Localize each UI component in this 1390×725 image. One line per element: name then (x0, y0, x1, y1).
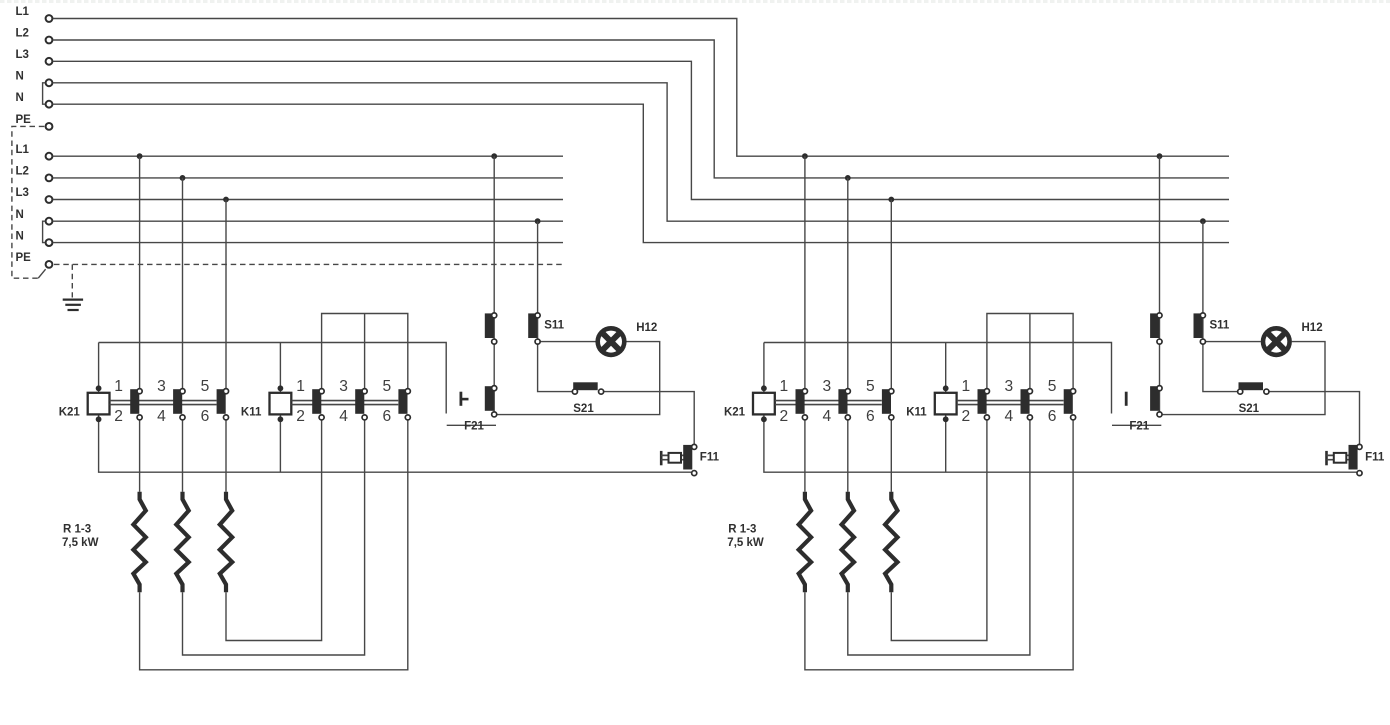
svg-text:1: 1 (780, 378, 789, 395)
mechanical linkage K11 contacts (left circuit) (291, 400, 398, 402)
contact K21 5-6 (right circuit) (882, 389, 891, 414)
wire left circuit star-point bridge over K11 (322, 314, 408, 392)
svg-text:7,5 kW: 7,5 kW (62, 537, 99, 549)
wire left circuit resistor R3 bottom loop to K11 contact 2 (226, 417, 322, 640)
svg-text:H12: H12 (1302, 322, 1323, 334)
wire left circuit K21 coil bottom to common return (99, 414, 694, 472)
svg-text:5: 5 (201, 378, 210, 395)
label F21 with reference line (left circuit) (447, 424, 496, 426)
overload relay F11 (right circuit) (1325, 451, 1328, 465)
pushbutton S21 (left circuit) (573, 382, 598, 390)
svg-text:4: 4 (157, 408, 166, 425)
svg-text:2: 2 (296, 408, 305, 425)
contact K11 1-2 (left circuit) (312, 389, 321, 414)
terminal L1 (distribution row 1) (46, 153, 53, 160)
contact K11 5-6 (right circuit) (1064, 389, 1073, 414)
wire right circuit star bridge middle drop to K11 contact 3 (1029, 314, 1031, 392)
mechanical linkage K21 contacts (right circuit) (775, 400, 882, 402)
svg-text:F11: F11 (1365, 452, 1385, 464)
auxiliary contact on L1 control drop (right circuit) (1150, 313, 1159, 338)
svg-text:2: 2 (780, 408, 789, 425)
svg-text:1: 1 (296, 378, 305, 395)
svg-text:S21: S21 (1239, 403, 1260, 415)
wire PE link diagonal to lower PE terminal (38, 269, 45, 278)
svg-text:6: 6 (1048, 408, 1057, 425)
terminal PE (incoming supply row 6) (46, 123, 53, 130)
terminal N (incoming supply row 5) (46, 101, 53, 108)
wire L3 upper bus (bends down to right-hand bus) (53, 61, 1229, 199)
svg-text:N: N (16, 209, 24, 221)
node right circuit L1 control tap junction (1157, 153, 1163, 159)
node right circuit L3 tap junction (888, 197, 894, 203)
resistor bank R 1-3 (left circuit) (133, 492, 145, 592)
wire left circuit K21 contact 2 down to resistor R1 (139, 417, 141, 491)
wire left circuit L1 drop through F21 contacts (493, 156, 495, 414)
svg-text:3: 3 (822, 378, 831, 395)
svg-text:F21: F21 (1129, 421, 1149, 433)
terminal N (distribution row 5) (46, 239, 53, 246)
overload relay F11 (left circuit) (660, 451, 663, 465)
svg-text:L3: L3 (16, 49, 29, 61)
overload contact F21 (right circuit) (1150, 386, 1159, 411)
terminal N (incoming supply row 4) (46, 79, 53, 86)
wire right circuit K11 coil bottom drop (945, 414, 947, 472)
svg-text:L2: L2 (16, 166, 29, 178)
resistor bank R 1-3 (right circuit) (799, 492, 811, 592)
wire left circuit S11 to lamp H12 (538, 341, 596, 343)
wire left circuit K21 contact 6 down to resistor R3 (225, 417, 227, 491)
wire left circuit N drop through S11 to S21 (538, 221, 574, 391)
svg-text:5: 5 (1048, 378, 1057, 395)
wire N lower-left bus (53, 220, 563, 222)
link between lower N terminals (43, 221, 46, 242)
wire right circuit K21 coil bottom to common return (764, 414, 1359, 472)
wire N upper bus (bends down to right-hand bus) (53, 104, 1229, 242)
wire right circuit K11 coil top (945, 343, 947, 393)
wire right circuit resistor R3 bottom loop to K11 contact 2 (891, 417, 987, 640)
svg-text:S11: S11 (1210, 319, 1230, 331)
lamp H12 (left circuit) (595, 326, 626, 357)
wire left circuit lamp H12 return to F21 contact (494, 342, 660, 415)
wire L1 upper bus (bends down to right-hand bus) (53, 19, 1229, 157)
svg-text:K21: K21 (724, 406, 746, 418)
mechanical linkage K11 contacts (right circuit) (957, 400, 1064, 402)
wire right circuit coil top control line to F21 trip (764, 343, 1112, 414)
svg-text:K11: K11 (241, 406, 262, 418)
svg-text:F21: F21 (464, 421, 484, 433)
contactor coil K21 (right circuit) (753, 393, 775, 415)
wire L3 lower-left bus (53, 199, 563, 201)
wire right circuit K21 contact 2 down to resistor R1 (804, 417, 806, 491)
wire right circuit L1 drop through F21 contacts (1159, 156, 1161, 414)
wire left circuit L1 drop to K21 contact 1 (139, 156, 141, 391)
wire right circuit N drop through S11 to S21 (1203, 221, 1239, 391)
node right circuit L2 tap junction (845, 175, 851, 181)
svg-text:1: 1 (962, 378, 971, 395)
svg-text:2: 2 (114, 408, 123, 425)
svg-text:N: N (16, 71, 24, 83)
ground (earth symbol) (63, 299, 83, 301)
node left circuit N control tap junction (535, 218, 541, 224)
wire PE drop to earth (71, 264, 73, 297)
wire left circuit K11 coil top (279, 343, 281, 393)
svg-text:S21: S21 (573, 403, 594, 415)
terminal L3 (incoming supply row 3) (46, 58, 53, 65)
svg-text:3: 3 (1005, 378, 1014, 395)
terminal L2 (incoming supply row 2) (46, 37, 53, 44)
node right circuit L1 tap junction (802, 153, 808, 159)
lamp H12 (right circuit) (1261, 326, 1292, 357)
svg-text:6: 6 (382, 408, 391, 425)
wire right circuit K21 coil top (763, 343, 765, 393)
contactor coil K21 (left circuit) (88, 393, 110, 415)
wire right circuit K21 contact 6 down to resistor R3 (890, 417, 892, 491)
wire right circuit L3 drop to K21 contact 5 (890, 200, 892, 392)
link between upper N terminals (43, 83, 46, 104)
wire PE lower bus (dashed) (54, 263, 563, 265)
wire right circuit S21 to F11 (1266, 392, 1359, 447)
wire left circuit K21 coil top (98, 343, 100, 393)
contact K11 3-4 (right circuit) (1021, 389, 1030, 414)
wire right circuit K21 contact 4 down to resistor R2 (847, 417, 849, 491)
wire left circuit L2 drop to K21 contact 3 (182, 178, 184, 391)
contact K11 3-4 (left circuit) (355, 389, 364, 414)
svg-text:N: N (16, 92, 24, 104)
wire right circuit resistor R1 bottom loop to K11 contact 6 (805, 417, 1073, 669)
terminal L1 (incoming supply row 1) (46, 15, 53, 22)
contactor coil K11 (right circuit) (935, 393, 957, 415)
svg-text:6: 6 (201, 408, 210, 425)
node left circuit L2 tap junction (180, 175, 186, 181)
label F21 with reference line (right circuit) (1112, 424, 1161, 426)
svg-text:7,5 kW: 7,5 kW (727, 537, 764, 549)
svg-text:F11: F11 (700, 452, 720, 464)
node right circuit N control tap junction (1200, 218, 1206, 224)
wire L2 upper bus (bends down to right-hand bus) (53, 40, 1229, 178)
terminal L2 (distribution row 2) (46, 175, 53, 182)
decor: faint clipped text row at top edge (0, 0, 1390, 3)
wire right circuit star-point bridge over K11 (987, 314, 1073, 392)
terminal L3 (distribution row 3) (46, 196, 53, 203)
wire left circuit K21 contact 4 down to resistor R2 (182, 417, 184, 491)
switch S11 (left circuit) (528, 313, 537, 338)
wire L2 lower-left bus (53, 177, 563, 179)
wire N upper bus (bends down to right-hand bus) (53, 83, 1229, 221)
pushbutton S21 (right circuit) (1239, 382, 1264, 390)
overload trip symbol F21 (left circuit) (459, 392, 462, 406)
auxiliary contact on L1 control drop (left circuit) (485, 313, 494, 338)
wire left circuit star bridge middle drop to K11 contact 3 (364, 314, 366, 392)
svg-text:N: N (16, 230, 24, 242)
svg-text:3: 3 (339, 378, 348, 395)
svg-text:R 1-3: R 1-3 (728, 523, 756, 535)
wire right circuit S11 to lamp H12 (1203, 341, 1261, 343)
svg-text:PE: PE (16, 114, 32, 126)
svg-text:5: 5 (382, 378, 391, 395)
svg-text:L2: L2 (16, 28, 29, 40)
svg-text:R 1-3: R 1-3 (63, 523, 91, 535)
contact K21 1-2 (left circuit) (130, 389, 139, 414)
svg-text:5: 5 (866, 378, 875, 395)
wire left circuit K11 coil bottom drop (279, 414, 281, 472)
wire N lower-left bus (53, 242, 563, 244)
wire L1 lower-left bus (53, 155, 563, 157)
contact K21 3-4 (left circuit) (173, 389, 182, 414)
wire right circuit resistor R2 bottom loop to K11 contact 4 (848, 417, 1030, 655)
wire left circuit resistor R2 bottom loop to K11 contact 4 (183, 417, 365, 655)
svg-text:6: 6 (866, 408, 875, 425)
wire right circuit L2 drop to K21 contact 3 (847, 178, 849, 391)
node left circuit L1 control tap junction (491, 153, 497, 159)
svg-text:L3: L3 (16, 187, 29, 199)
wire right circuit lamp H12 return to F21 contact (1160, 342, 1326, 415)
overload contact F21 (left circuit) (485, 386, 494, 411)
svg-text:K11: K11 (906, 406, 927, 418)
overload trip symbol F21 (right circuit) (1125, 392, 1128, 406)
dashed PE link bracket (left side) (12, 126, 44, 278)
contact K11 5-6 (left circuit) (398, 389, 407, 414)
svg-text:H12: H12 (636, 322, 657, 334)
svg-text:S11: S11 (544, 319, 564, 331)
contact K21 3-4 (right circuit) (838, 389, 847, 414)
svg-text:2: 2 (962, 408, 971, 425)
switch S11 (right circuit) (1194, 313, 1203, 338)
terminal PE (distribution row 6) (46, 261, 53, 268)
contact K21 5-6 (left circuit) (217, 389, 226, 414)
wire left circuit coil top control line to F21 trip (99, 343, 447, 414)
svg-text:PE: PE (16, 252, 32, 264)
wire left circuit S21 to F11 (601, 392, 694, 447)
svg-text:4: 4 (1005, 408, 1014, 425)
contactor coil K11 (left circuit) (270, 393, 292, 415)
svg-text:1: 1 (114, 378, 123, 395)
wire left circuit L3 drop to K21 contact 5 (225, 200, 227, 392)
svg-text:4: 4 (822, 408, 831, 425)
svg-text:K21: K21 (59, 406, 81, 418)
node left circuit L1 tap junction (137, 153, 143, 159)
terminal N (distribution row 4) (46, 218, 53, 225)
mechanical linkage K21 contacts (left circuit) (110, 400, 217, 402)
svg-text:L1: L1 (16, 144, 30, 156)
wire left circuit resistor R1 bottom loop to K11 contact 6 (140, 417, 408, 669)
contact K11 1-2 (right circuit) (978, 389, 987, 414)
svg-text:4: 4 (339, 408, 348, 425)
contact K21 1-2 (right circuit) (796, 389, 805, 414)
wire right circuit L1 drop to K21 contact 1 (804, 156, 806, 391)
svg-text:3: 3 (157, 378, 166, 395)
svg-text:L1: L1 (16, 6, 30, 18)
node left circuit L3 tap junction (223, 197, 229, 203)
